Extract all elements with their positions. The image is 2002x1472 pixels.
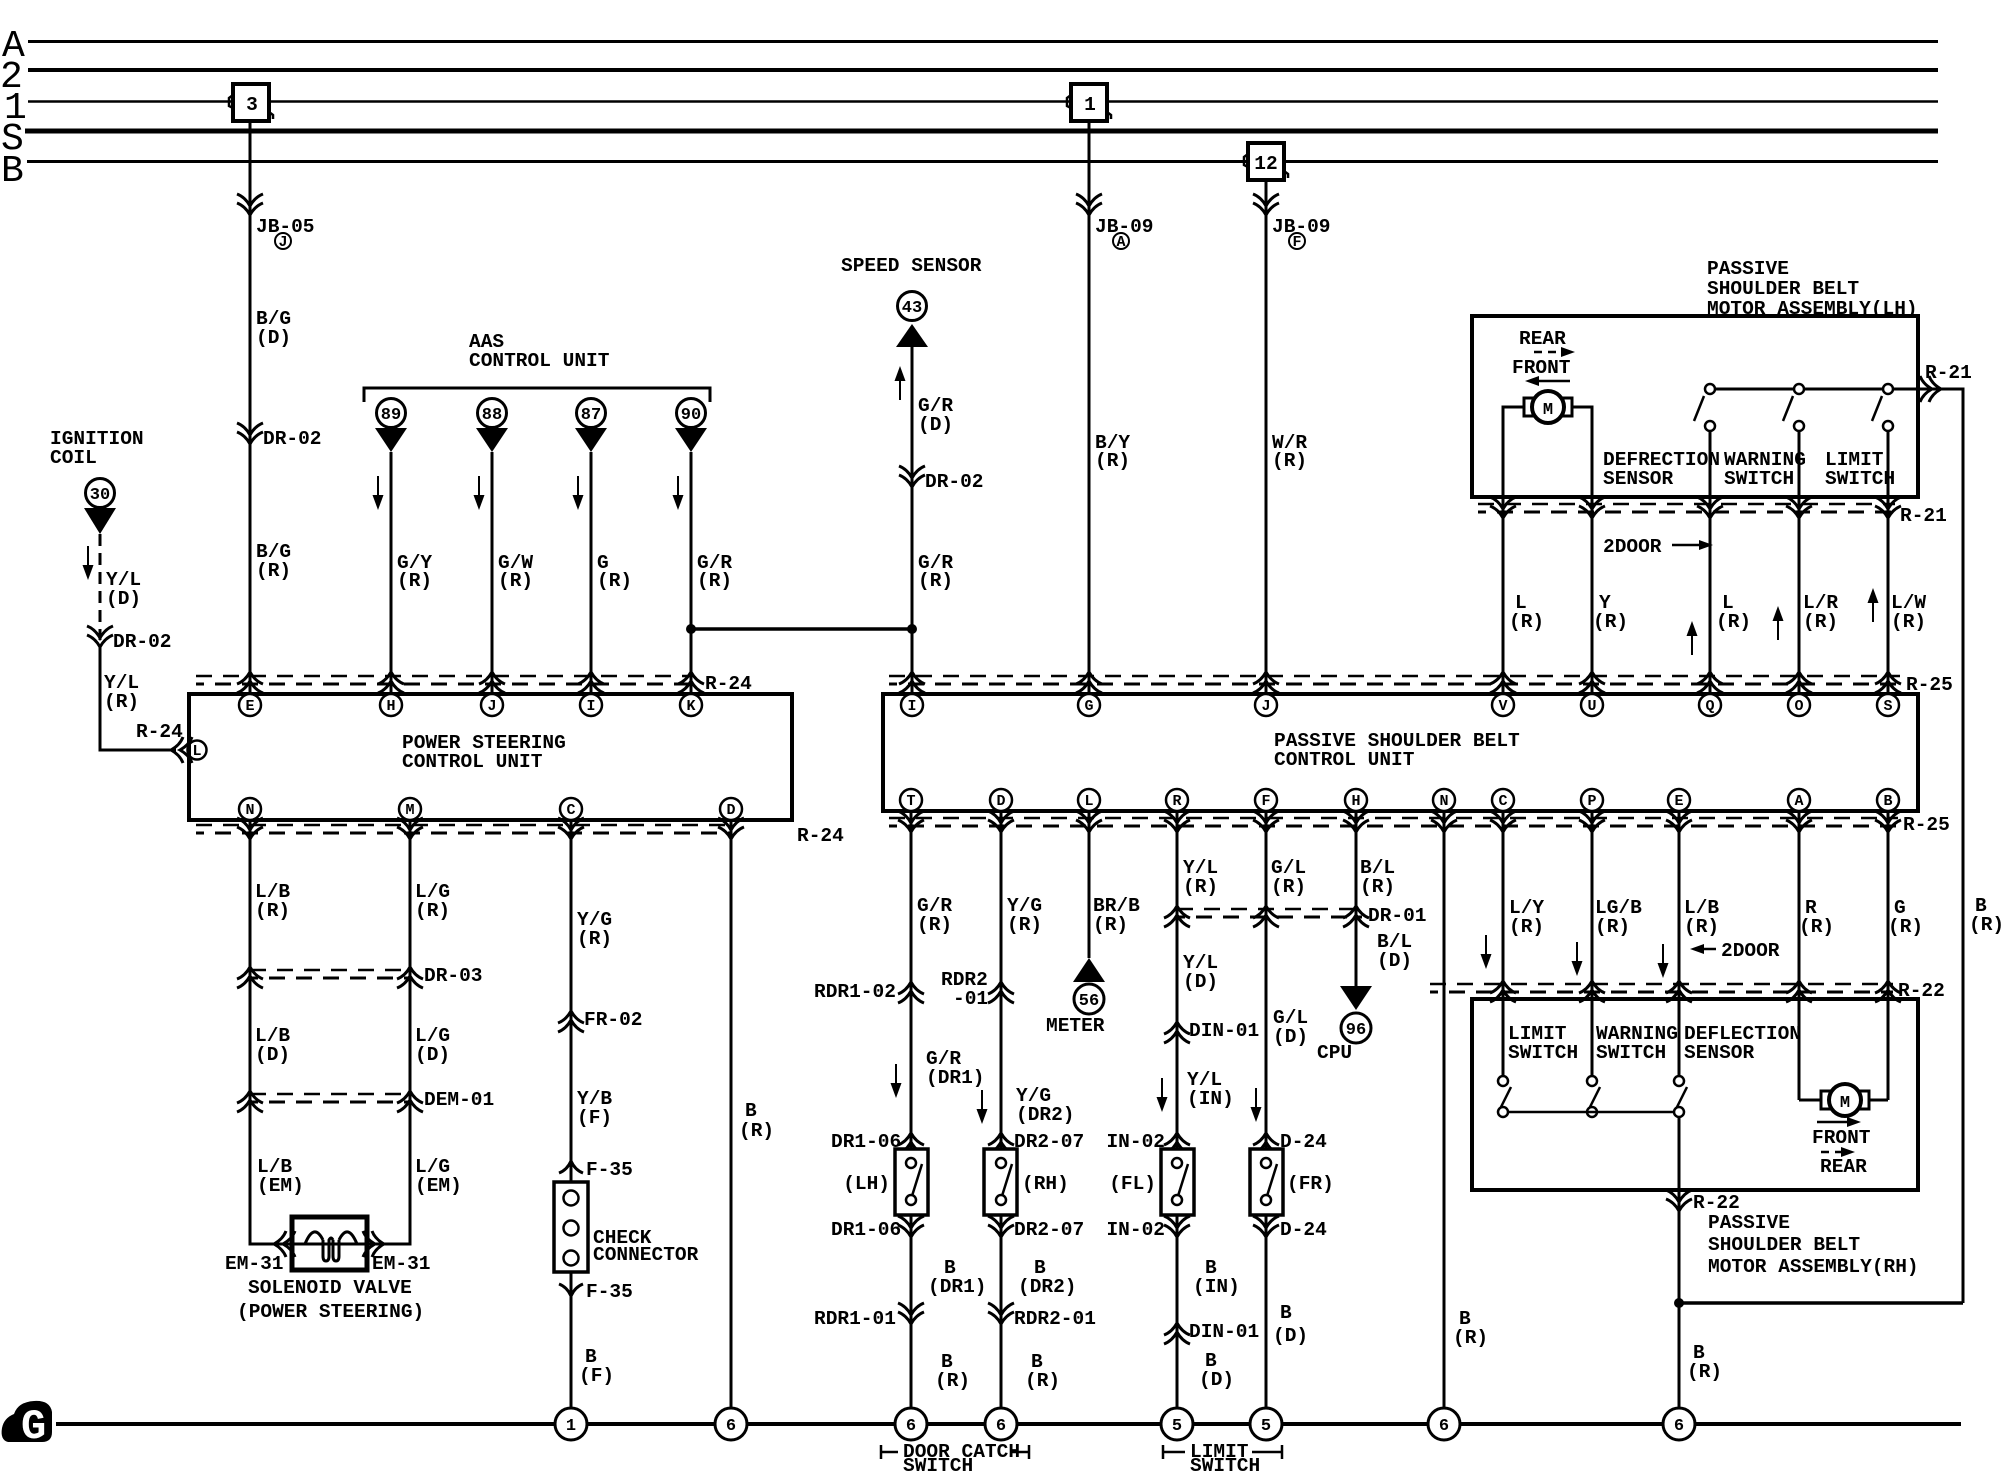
svg-text:(R): (R) [739,1120,774,1142]
svg-text:DR-02: DR-02 [263,428,322,450]
ground circle 6 d2-wire [985,1408,1017,1440]
R-25 upper chevron Q [1697,672,1723,693]
wire P down [1591,811,1594,1081]
ground circle 6 rh-wire [1663,1408,1695,1440]
check connector box [554,1182,588,1272]
svg-text:SWITCH: SWITCH [1724,468,1794,490]
svg-text:(RH): (RH) [1022,1173,1069,1195]
RH deflection sensor [1674,1076,1687,1117]
terminal K [680,694,702,716]
R-21 chevron Q [1697,497,1723,518]
svg-text:D-24: D-24 [1280,1219,1327,1241]
ground circle 5 r-wire [1161,1408,1193,1440]
R-25 upper chevron V [1490,672,1516,693]
connector RDR1-01 [814,1303,924,1330]
svg-text:SWITCH: SWITCH [1190,1455,1260,1472]
R-25 lower chevron E [1666,811,1692,832]
door catch switch RH [984,1149,1017,1215]
terminal V [1492,694,1514,716]
wire motor left to terminal V [1503,407,1524,694]
RH warning switch [1587,1076,1600,1117]
connector chevrons into L [171,737,192,763]
svg-text:(R): (R) [256,560,291,582]
wire F down [1265,811,1268,1424]
terminal J passive [1255,694,1277,716]
R-24 lower connector row [196,825,844,847]
svg-text:E: E [245,698,254,715]
solenoid chevron left [274,1231,295,1257]
junction RH wire to R-21 wire [1674,1298,1963,1308]
wire fuse1 to terminal G [1088,121,1091,694]
svg-text:(R): (R) [577,928,612,950]
arrow down p-wire [1572,942,1583,976]
svg-text:L: L [1084,793,1093,810]
label FRONT with arrow left [1512,357,1571,386]
svg-text:D: D [726,802,735,819]
connector JB-09 F [1253,194,1331,251]
LH limit switch [1872,384,1893,431]
wire below check connector [570,1272,573,1424]
R-25 upper chevron O [1786,672,1812,693]
passive shoulder belt control unit box [883,694,1918,811]
terminal A [1788,789,1810,811]
fuse 3 [229,84,273,121]
R-21 chevron V [1490,497,1516,518]
svg-text:(D): (D) [1199,1369,1234,1391]
svg-text:D: D [996,793,1005,810]
svg-text:6: 6 [996,1417,1006,1436]
terminal D [720,798,742,820]
wire N2 down to ground [1443,811,1446,1424]
terminal J [481,694,503,716]
arrow up o-wire [1773,606,1784,640]
R-24 lower chevron M [397,818,423,839]
svg-text:2DOOR: 2DOOR [1721,940,1780,962]
RH limit switch [1498,1076,1511,1117]
connector F-35 bottom [559,1281,633,1303]
DR-01 chevron H [1343,906,1369,927]
svg-text:E: E [1674,793,1683,810]
connector DR-02 [237,423,322,450]
svg-text:SOLENOID VALVE: SOLENOID VALVE [248,1277,412,1299]
terminal S [1877,694,1899,716]
arrow down c2-wire [1481,935,1492,969]
connector DR-02 ignition [87,626,172,653]
svg-text:SHOULDER BELT: SHOULDER BELT [1708,1234,1860,1256]
R-25 lower chevron A [1786,811,1812,832]
connector D-24 lower [1253,1216,1327,1241]
terminal F [1255,789,1277,811]
svg-text:SWITCH: SWITCH [1508,1042,1578,1064]
svg-text:(EM): (EM) [415,1175,462,1197]
svg-text:N: N [245,802,254,819]
svg-text:(R): (R) [1453,1327,1488,1349]
svg-text:R-24: R-24 [797,825,844,847]
svg-text:J: J [278,234,287,251]
svg-text:(R): (R) [917,914,952,936]
R-25 lower chevron T [898,811,924,832]
R-24 upper chevron H [378,672,404,693]
R-22 chevron E [1666,981,1692,1002]
svg-text:R-24: R-24 [705,673,752,695]
terminal C passive [1492,789,1514,811]
svg-text:EM-31: EM-31 [372,1253,431,1275]
svg-text:A: A [1116,234,1125,251]
svg-text:N: N [1439,793,1448,810]
svg-text:(R): (R) [697,570,732,592]
svg-text:5: 5 [1172,1417,1182,1436]
direction arrow down [83,546,94,580]
svg-text:J: J [487,698,496,715]
svg-text:B: B [1280,1302,1292,1324]
wire 89 to H [390,452,393,694]
svg-text:PASSIVE: PASSIVE [1708,1212,1790,1234]
svg-text:(R): (R) [1272,450,1307,472]
svg-text:1: 1 [1084,94,1096,116]
svg-text:-01: -01 [953,988,988,1010]
ground bus [56,1422,1961,1426]
solenoid valve box [292,1217,367,1270]
terminal P [1581,789,1603,811]
AAS bracket [364,388,710,402]
arrow up q-wire [1687,621,1698,655]
label REAR with dashed arrow [1519,328,1575,357]
svg-text:SENSOR: SENSOR [1603,468,1674,490]
svg-text:R-22: R-22 [1693,1192,1740,1214]
wire warning switch to O [1798,431,1801,694]
connector R-22 below RH box [1666,1190,1740,1214]
svg-text:(EM): (EM) [257,1175,304,1197]
svg-text:(R): (R) [397,570,432,592]
svg-text:(R): (R) [415,900,450,922]
DR-03 connector row [237,965,483,988]
terminal L [188,741,207,761]
svg-text:F: F [1261,793,1270,810]
connector D-24 upper [1253,1131,1327,1154]
svg-text:(R): (R) [1025,1370,1060,1392]
R-24 upper connector row [196,673,752,695]
svg-text:96: 96 [1346,1021,1366,1040]
svg-text:(D): (D) [256,327,291,349]
connector DR2-07 upper [988,1131,1084,1154]
R-22 connector row [1430,980,1945,1002]
svg-text:J: J [1261,698,1270,715]
svg-text:(D): (D) [918,414,953,436]
motor RH [1821,1084,1869,1116]
bus line B [27,160,1938,163]
terminal N passive [1433,789,1455,811]
svg-text:(R): (R) [255,900,290,922]
svg-text:M: M [1840,1094,1850,1113]
svg-text:COIL: COIL [50,447,97,469]
arrow down r-wire [1157,1078,1168,1112]
arrow down e2-wire [1658,944,1669,978]
connector RDR2-01 upper [941,969,1014,1010]
svg-text:CPU: CPU [1317,1042,1352,1064]
wire A to motor [1799,1099,1821,1102]
speed sensor connector 43 [896,292,928,348]
wire fuse12 to terminal J [1265,180,1268,694]
wire D2 down [1000,811,1003,1424]
R-25 lower chevron R [1164,811,1190,832]
svg-text:43: 43 [902,299,922,318]
svg-text:(R): (R) [1007,914,1042,936]
wire 90 to K [690,452,693,694]
connector FR-02 [558,1009,643,1032]
svg-text:FRONT: FRONT [1512,357,1571,379]
LH switch top bus line to R-21 [1710,389,1963,1303]
R-25 upper connector row [889,674,1953,696]
svg-text:C: C [1498,793,1507,810]
R-25 upper chevron G [1076,672,1102,693]
R-25 lower chevron L [1076,811,1102,832]
terminal N [239,798,261,820]
svg-text:(R): (R) [1969,914,2002,936]
wire E2 down [1678,811,1681,1081]
svg-text:(R): (R) [1595,916,1630,938]
svg-text:DR1-06: DR1-06 [831,1219,901,1241]
R-25 lower chevron D [988,811,1014,832]
wire 87 to I [590,452,593,694]
arrow on wire 87 [573,476,584,510]
LH motor assembly box [1472,316,1918,497]
limit switch FL [1161,1149,1194,1215]
door catch switch bracket [881,1441,1029,1472]
svg-text:F-35: F-35 [586,1159,633,1181]
terminal I passive [901,694,923,716]
svg-text:RDR1-02: RDR1-02 [814,981,896,1003]
svg-text:B: B [1,150,24,193]
svg-text:DR2-07: DR2-07 [1014,1131,1084,1153]
terminal G passive [1078,694,1100,716]
svg-text:T: T [906,793,915,810]
svg-text:(R): (R) [1271,876,1306,898]
svg-text:A: A [1794,793,1803,810]
svg-text:P: P [1587,793,1596,810]
connector IN-02 lower [1106,1216,1190,1241]
svg-text:REAR: REAR [1519,328,1566,350]
wire L meter [1088,811,1091,958]
R-22 chevron B [1875,981,1901,1002]
svg-text:(FR): (FR) [1287,1173,1334,1195]
svg-text:REAR: REAR [1820,1156,1867,1178]
svg-text:(DR1): (DR1) [928,1276,987,1298]
svg-text:RDR1-01: RDR1-01 [814,1308,896,1330]
svg-text:G: G [21,1403,46,1451]
AAS pin 90 [675,399,707,453]
svg-text:DR1-06: DR1-06 [831,1131,901,1153]
svg-text:(IN): (IN) [1187,1088,1234,1110]
R-25 lower chevron C [1490,811,1516,832]
wire T down [910,811,913,1424]
svg-text:DIN-01: DIN-01 [1189,1321,1259,1343]
AAS pin 89 [375,399,407,453]
solenoid wire through [292,1243,367,1246]
wire A down [1798,811,1801,1100]
svg-text:(DR2): (DR2) [1016,1104,1075,1126]
svg-text:H: H [1351,793,1360,810]
svg-text:U: U [1587,698,1596,715]
arrow on wire 90 [673,476,684,510]
wire RH common down [1678,1118,1681,1424]
svg-text:12: 12 [1254,153,1277,175]
connector DIN-01 upper [1164,1020,1259,1043]
fuse 1 [1067,84,1111,121]
R-24 lower chevron D [718,818,744,839]
LH warning switch [1783,384,1804,431]
svg-text:(IN): (IN) [1193,1276,1240,1298]
wire speed sensor to terminal I [911,347,914,694]
svg-text:R-21: R-21 [1925,362,1972,384]
connector DR2-07 lower [988,1216,1084,1241]
svg-text:(R): (R) [498,570,533,592]
R-25 lower chevron H [1343,811,1369,832]
connector R-21 right exit [1920,362,1972,402]
svg-text:Q: Q [1705,698,1714,715]
terminal U [1581,694,1603,716]
R-24 lower chevron N [237,818,263,839]
R-25 lower chevron P [1579,811,1605,832]
svg-text:RDR2-01: RDR2-01 [1014,1308,1096,1330]
svg-text:K: K [686,698,695,715]
svg-text:SWITCH: SWITCH [903,1455,973,1472]
svg-text:M: M [1543,401,1553,420]
svg-text:F-35: F-35 [586,1281,633,1303]
wire D down to ground [730,820,733,1424]
svg-text:R-24: R-24 [136,721,183,743]
terminal M [399,798,421,820]
ground symbol G [2,1401,52,1451]
bus line S [25,129,1938,134]
svg-text:(R): (R) [104,691,139,713]
svg-text:V: V [1498,698,1507,715]
wire Y/L to L terminal [100,646,176,750]
DR-01 chevron R [1164,906,1190,927]
ground circle 6 d-wire [715,1408,747,1440]
terminal O [1788,694,1810,716]
svg-text:5: 5 [1261,1417,1271,1436]
svg-text:56: 56 [1079,992,1099,1011]
svg-text:(D): (D) [106,588,141,610]
svg-text:G: G [1084,698,1093,715]
svg-text:90: 90 [681,406,701,425]
R-25 upper chevron I [899,672,925,693]
svg-text:(R): (R) [1093,914,1128,936]
wire C2 down [1502,811,1505,1081]
wire limit switch to S [1887,431,1890,694]
svg-text:30: 30 [90,486,110,505]
AAS pin 87 [575,399,607,453]
power steering control unit box [189,694,792,820]
svg-text:SWITCH: SWITCH [1596,1042,1666,1064]
limit switch bracket [1163,1441,1282,1472]
RH motor assembly box [1472,999,1918,1190]
wire fuse3 to terminal E [249,121,252,694]
label 2DOOR with arrow right [1603,536,1713,558]
wire M down [350,820,410,1244]
R-21 connector row [1478,504,1947,527]
R-24 upper chevron K [678,672,704,693]
svg-text:I: I [586,698,595,715]
svg-text:DR-02: DR-02 [925,471,984,493]
svg-text:SPEED SENSOR: SPEED SENSOR [841,255,982,277]
svg-text:88: 88 [482,406,502,425]
svg-text:B: B [745,1100,757,1122]
svg-text:(D): (D) [255,1044,290,1066]
svg-text:(D): (D) [1273,1026,1308,1048]
svg-text:(F): (F) [577,1107,612,1129]
svg-text:(LH): (LH) [843,1173,890,1195]
R-25 lower chevron B [1875,811,1901,832]
svg-text:DR-02: DR-02 [113,631,172,653]
svg-text:(R): (R) [918,570,953,592]
svg-text:F: F [1292,234,1301,251]
terminal R [1166,789,1188,811]
connector JB-05 [237,194,315,251]
terminal H [380,694,402,716]
svg-text:(R): (R) [1183,876,1218,898]
svg-text:(R): (R) [1509,916,1544,938]
svg-text:CONNECTOR: CONNECTOR [593,1244,699,1266]
wire motor right to terminal U [1572,407,1592,694]
fuse 12 [1244,143,1288,180]
wire R down [1176,811,1179,1424]
R-25 lower chevron F [1253,811,1279,832]
svg-text:C: C [566,802,575,819]
svg-text:(R): (R) [1095,450,1130,472]
ground circle 5 f-wire [1250,1408,1282,1440]
svg-text:(R): (R) [1687,1361,1722,1383]
solenoid coil [305,1232,357,1261]
arrow down f-wire [1251,1088,1262,1122]
R-25 upper chevron S [1875,672,1901,693]
R-22 chevron C [1490,981,1516,1002]
svg-text:DIN-01: DIN-01 [1189,1020,1259,1042]
door catch switch LH [895,1149,928,1215]
label 2DOOR with arrow left [1690,940,1780,962]
svg-text:2DOOR: 2DOOR [1603,536,1662,558]
bus line A [28,40,1938,43]
svg-text:DR-01: DR-01 [1368,905,1427,927]
svg-text:O: O [1794,698,1803,715]
svg-text:IN-02: IN-02 [1106,1219,1165,1241]
LH defrection sensor switch [1694,384,1715,431]
limit switch FR [1250,1149,1283,1215]
svg-text:(POWER STEERING): (POWER STEERING) [237,1301,424,1323]
svg-text:(R): (R) [1799,916,1834,938]
wire defrection sensor to Q [1709,431,1712,694]
R-24 upper chevron E [237,672,263,693]
terminal C [560,798,582,820]
connector DR1-06 lower [831,1216,924,1241]
R-21 chevron U [1579,497,1605,518]
R-22 chevron P [1579,981,1605,1002]
svg-text:DR-03: DR-03 [424,965,483,987]
svg-text:(DR2): (DR2) [1018,1276,1077,1298]
wire motor to B [1869,1099,1888,1102]
svg-text:B: B [1883,793,1892,810]
svg-text:(R): (R) [935,1370,970,1392]
svg-text:(R): (R) [597,570,632,592]
svg-text:(R): (R) [1509,611,1544,633]
connector DIN-01 lower [1164,1321,1259,1344]
terminal Q [1699,694,1721,716]
svg-text:CONTROL UNIT: CONTROL UNIT [469,350,610,372]
svg-text:R-25: R-25 [1903,814,1950,836]
svg-text:M: M [405,802,414,819]
connector JB-09 A [1076,194,1154,251]
svg-text:D-24: D-24 [1280,1131,1327,1153]
